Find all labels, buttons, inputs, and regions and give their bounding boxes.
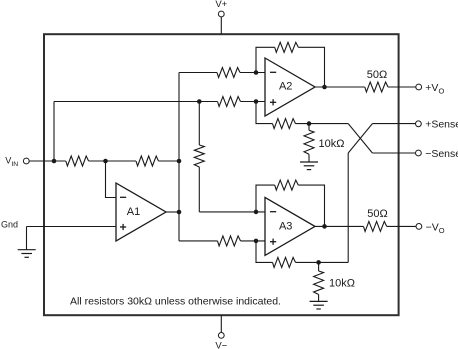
- wire bus to A2 inverting (y=72.5): [179, 72, 217, 74]
- V- terminal: [218, 333, 224, 339]
- wire R5 to A2 -: [240, 72, 265, 74]
- svg-text:+Sense: +Sense: [425, 119, 458, 131]
- wire R1 to R2: [89, 160, 136, 162]
- resistor R2 30k (VIN second): [136, 156, 159, 166]
- A3 plus pin mark: [270, 241, 276, 243]
- wire central bus x=179: [178, 73, 180, 241]
- wire Gnd ground stub: [26, 227, 28, 250]
- wire 50ohm to +VO terminal: [388, 86, 416, 88]
- node A3 + input junction: [254, 239, 259, 244]
- wire A2 noninverting run (y=101.5): [54, 101, 218, 103]
- wire A2 + drop: [256, 102, 273, 124]
- svg-text:+VO: +VO: [425, 82, 444, 96]
- resistor R9 30k (A3 + input): [218, 236, 241, 246]
- wire A1 output: [166, 211, 179, 213]
- wire A3 output: [315, 225, 364, 227]
- svg-text:V+: V+: [215, 0, 227, 10]
- VIN terminal: [23, 158, 29, 164]
- wire 50ohm to -VO terminal: [387, 225, 416, 227]
- A2 minus pin mark: [270, 71, 276, 73]
- resistor R5 30k (A2 - input): [217, 68, 240, 78]
- wire 10k top lead (A3): [318, 262, 320, 271]
- node A3 - input junction: [254, 210, 259, 215]
- resistor R6 30k (A2 feedback): [275, 42, 299, 52]
- +VO terminal: [416, 84, 422, 90]
- wire A3 feedback to output: [298, 185, 324, 226]
- A1 minus pin mark: [120, 196, 126, 198]
- IC boundary box: [44, 34, 399, 315]
- resistor R3 30k (A2 + input): [218, 97, 241, 107]
- wire V- stub: [220, 315, 222, 332]
- -Sense terminal: [416, 150, 422, 156]
- svg-text:Gnd: Gnd: [1, 219, 18, 229]
- resistor R1 30k (VIN first): [66, 156, 89, 166]
- node A3 output junction: [322, 224, 327, 229]
- node 10k tap (A2): [307, 121, 312, 126]
- node vertical-resistor top junction: [197, 99, 202, 104]
- op-amp A3: [265, 197, 315, 255]
- wire R9 to A3 +: [241, 240, 266, 242]
- wire VIN lead: [29, 160, 66, 162]
- resistor R8 30k (A3 feedback): [275, 180, 299, 190]
- node 10k tap (A3): [316, 260, 321, 265]
- svg-text:A1: A1: [127, 206, 140, 218]
- node R1-R2 junction (A1 inverting tap): [103, 159, 108, 164]
- node A2 - input junction: [254, 70, 259, 75]
- wire A2 feedback riser: [256, 47, 275, 72]
- wire R3 to A2 +: [241, 101, 266, 103]
- svg-text:10kΩ: 10kΩ: [319, 138, 345, 150]
- wire A3 feedback riser: [256, 185, 275, 212]
- wire crossover A2-to--Sense diagonal: [348, 124, 372, 153]
- wire sense riser x=348.2: [347, 153, 349, 262]
- ground (A2 10k): [300, 161, 318, 163]
- wire sense run to riser: [296, 261, 349, 263]
- wire to -Sense terminal: [372, 152, 415, 154]
- node A2 output junction: [322, 85, 327, 90]
- V+ terminal: [218, 11, 224, 17]
- wire bus to A3 noninverting (y=240.5): [179, 240, 218, 242]
- wire to A3 inverting input: [199, 211, 265, 213]
- resistor 50 ohm (-VO): [364, 221, 387, 231]
- resistor 10k (A3): [314, 271, 324, 295]
- wire 10k top lead (A2): [308, 124, 310, 131]
- svg-text:A2: A2: [279, 81, 292, 93]
- wire vertical resistor top lead: [198, 102, 200, 146]
- op-amp A1: [116, 183, 166, 241]
- ground (input): [18, 249, 36, 251]
- wire Gnd to A1 +: [27, 226, 117, 228]
- svg-text:10kΩ: 10kΩ: [329, 278, 355, 290]
- wire A2 output: [315, 86, 365, 88]
- resistor 50 ohm (+VO): [365, 82, 388, 92]
- wire vertical resistor bottom lead: [198, 167, 200, 212]
- svg-text:All resistors 30kΩ unless othe: All resistors 30kΩ unless otherwise indi…: [70, 296, 281, 308]
- node VIN-R1 junction: [52, 159, 57, 164]
- wire riser x=54 up to A2 noninverting run: [53, 102, 55, 162]
- wire A3 + drop: [256, 241, 273, 263]
- +Sense terminal: [416, 121, 422, 127]
- node A1 output junction: [177, 210, 182, 215]
- wire V+ stub: [220, 17, 222, 34]
- -VO terminal: [416, 224, 422, 230]
- wire sense run to crossover: [296, 123, 349, 125]
- svg-text:50Ω: 50Ω: [367, 208, 387, 220]
- wire crossover A3-to-+Sense diagonal: [348, 124, 372, 153]
- svg-text:V−: V−: [215, 341, 227, 349]
- wire 10k ground stub (A3): [318, 295, 320, 302]
- A1 plus pin mark: [120, 226, 126, 228]
- ground (A3 10k): [310, 300, 328, 302]
- resistor R7 30k (A2 sense): [273, 119, 296, 129]
- node A2 + input junction: [254, 99, 259, 104]
- svg-text:−Sense: −Sense: [425, 148, 458, 160]
- wire R2 to summing line: [159, 160, 180, 162]
- node summing line / input chain: [177, 159, 182, 164]
- resistor R10 30k (A3 sense): [273, 257, 296, 267]
- svg-text:−VO: −VO: [426, 221, 445, 235]
- A3 minus pin mark: [270, 211, 276, 213]
- svg-text:50Ω: 50Ω: [367, 69, 387, 81]
- wire to +Sense terminal: [372, 123, 415, 125]
- op-amp A2: [265, 58, 315, 116]
- wire A1 inverting drop: [106, 161, 117, 198]
- resistor R4 30k (vertical): [194, 145, 204, 167]
- svg-text:VIN: VIN: [5, 155, 18, 168]
- wire A2 feedback to output: [298, 47, 324, 87]
- wire 10k ground stub (A2): [308, 154, 310, 162]
- resistor 10k (A2): [304, 130, 314, 154]
- A2 plus pin mark: [270, 101, 276, 103]
- svg-text:A3: A3: [279, 221, 292, 233]
